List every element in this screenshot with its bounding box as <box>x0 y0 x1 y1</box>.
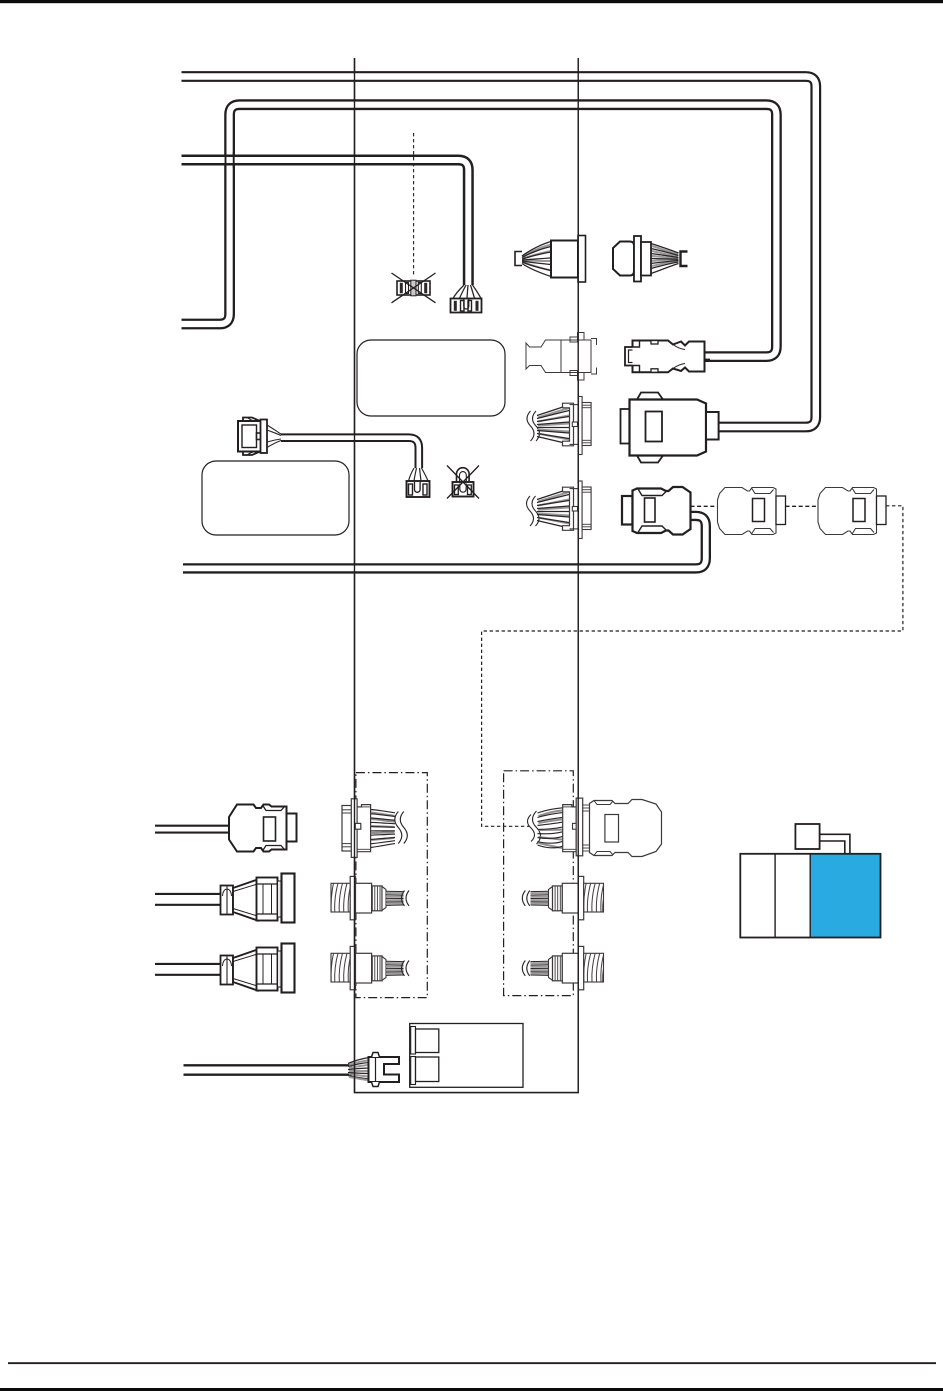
connector R2 threaded round bulkhead (right dash-dot box middle) <box>522 876 603 919</box>
wire W-F (bottom cable into connector P21) <box>184 1064 353 1076</box>
rounded callout box lower <box>202 461 349 535</box>
top page border bar <box>0 0 943 3</box>
dashed link P12 to P16 <box>691 505 718 507</box>
connector P2 plug with wire-fan to right <box>613 236 688 282</box>
panel lines redrawn over wire crossings <box>355 58 579 1093</box>
dashed route P17 to harness break at P18 <box>482 506 903 827</box>
terminal box B1 <box>410 1024 523 1088</box>
wire W-B leg restored across W-C crossing <box>226 152 234 168</box>
wire W-A (outer loop: top y76.5 / right x815.8 / bottom y427 to connector P6) <box>182 77 816 428</box>
connector P16 light plug (dashed row) <box>718 488 786 535</box>
wire W-B (inner loop: left leg x229.6, top y104.7, right leg x776.4, to connector P4) <box>182 105 777 357</box>
connector P6 large dark plug on wire W-A <box>621 393 719 463</box>
dashed link P16 to P17 <box>786 505 819 507</box>
connector P10 wire-fan plug on right panel line (row 508) <box>527 481 592 539</box>
dashed leader to crossed connector X1 <box>413 133 415 276</box>
connector P1 wire-fan receptacle on right panel line <box>515 236 586 283</box>
ecu box with cyan cell <box>740 854 880 938</box>
connector P8 on pigtail W-E <box>407 468 430 497</box>
connector P21 plug on bottom cable W-F <box>348 1053 399 1087</box>
wire W-H (cable of round connector P14) <box>155 893 221 906</box>
connector P5 wire-fan plug on right panel line (row 425) <box>527 397 591 455</box>
connector L1 bulkhead wire-fan on left panel line (left dash-dot box) <box>342 799 407 858</box>
wire W-E (pigtail of connector P7 down to connector P8) <box>281 438 419 468</box>
ecu pilot box <box>795 824 819 849</box>
connector P12 dark plug with dashed link and wire W-D <box>622 487 691 535</box>
connector L2 threaded round bulkhead (left dash-dot box middle) <box>331 876 409 919</box>
connector P13 plug with cable (left column top) <box>229 805 297 852</box>
connector R1 wire-fan bulkhead plug on right panel line (right dash-dot box) <box>528 798 662 856</box>
connector P4 dark plug with lead to wire W-B <box>625 341 710 373</box>
connector R3 threaded round bulkhead (right dash-dot box bottom) <box>522 946 603 989</box>
connector P17 light plug (dashed row, right) <box>818 488 886 535</box>
crossed-out connector X1 <box>392 273 436 303</box>
footer rule <box>8 1362 936 1364</box>
wire W-I (cable of round connector P15) <box>155 963 221 976</box>
wire W-G (cable of connector P13) <box>155 825 229 834</box>
connector P15 round plug with cable (left column bottom) <box>221 944 295 993</box>
wire W-C (y160 from left, down at x468.3 to connector P9) <box>182 160 469 285</box>
ecu box link wires <box>820 834 850 854</box>
wire W-D (from connector P12 right, down at x705.8, bottom y568.4 to left) <box>183 516 706 569</box>
connector L3 threaded round bulkhead (left dash-dot box bottom) <box>331 946 409 989</box>
connector P14 round plug with cable (left column middle) <box>221 874 295 923</box>
rounded callout box upper <box>357 340 505 416</box>
crossed-out connector X2 <box>447 466 479 499</box>
bottom page border bar <box>0 1388 943 1391</box>
connector P3 light plug straddling right panel line <box>526 333 597 381</box>
connector P7 pigtail plug <box>238 417 281 456</box>
dash-dot boundary box left <box>356 773 427 998</box>
panel line left (vertical) joined by bottom rail to panel line right <box>355 58 579 1093</box>
connector P9 fed by wire W-C fan <box>451 285 482 313</box>
dash-dot boundary box right <box>504 771 574 996</box>
